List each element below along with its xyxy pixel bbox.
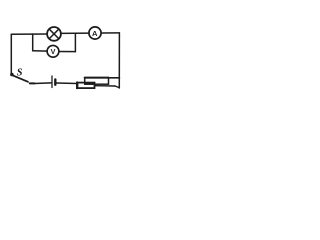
- wire switch to battery: [34, 82, 51, 85]
- battery cell long plate: [51, 76, 53, 88]
- ammeter A: [89, 27, 101, 39]
- switch S contact: [30, 82, 35, 84]
- svg-text:A: A: [92, 29, 98, 38]
- svg-text:S: S: [17, 68, 23, 79]
- rheostat lower box: [77, 83, 95, 89]
- wire voltmeter bottom right: [59, 51, 76, 53]
- wire voltmeter left leg: [32, 34, 34, 51]
- rheostat lower box left dark edge: [76, 83, 78, 89]
- svg-text:V: V: [51, 47, 56, 56]
- wire rheostat tap to right vertical: [109, 77, 120, 79]
- wire rheostat right terminal to right vertical: [95, 85, 115, 87]
- wire battery to rheostat: [57, 82, 78, 85]
- wire ammeter to right corner: [101, 32, 119, 34]
- battery cell short thick plate: [54, 80, 56, 85]
- wire voltmeter bottom left: [33, 50, 48, 52]
- wire voltmeter right leg: [74, 33, 76, 52]
- voltmeter V: [47, 45, 59, 57]
- rheostat upper box top thick edge: [85, 77, 109, 79]
- rheostat upper box: [85, 78, 109, 84]
- wire bottom right hook: [115, 86, 119, 88]
- node switch hinge: [10, 73, 14, 77]
- wire left vertical: [10, 34, 12, 73]
- wire lamp to ammeter: [61, 32, 89, 34]
- wire top main (left corner to lamp): [11, 33, 47, 35]
- switch S blade: [13, 75, 29, 82]
- lamp L1 (circle with cross): [47, 27, 61, 41]
- wire right vertical: [118, 33, 120, 88]
